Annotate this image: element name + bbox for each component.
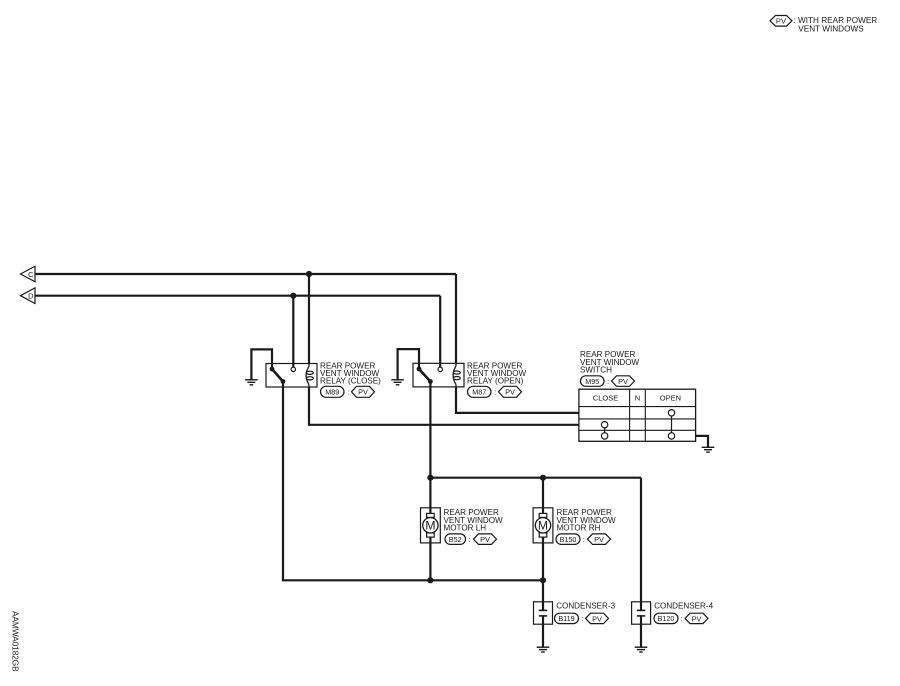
svg-text:PV: PV [480, 535, 490, 544]
svg-text::: : [607, 377, 609, 386]
motor B150 symbol [535, 513, 550, 537]
svg-text:N: N [635, 394, 640, 403]
wire condenser-3 to ground [542, 624, 544, 647]
motor B52 symbol [423, 513, 438, 537]
node bottom bus motor RH / condenser-3 [540, 577, 546, 583]
wire motor B52 bottom lead [429, 537, 431, 580]
svg-text:MOTOR LH: MOTOR LH [444, 523, 487, 532]
svg-text::: : [583, 535, 585, 544]
svg-text:PV: PV [594, 535, 604, 544]
connector arrow D [21, 288, 36, 304]
relay M87 box [413, 363, 464, 387]
svg-text:B150: B150 [560, 535, 577, 544]
wire D down to relay M87 terminal [439, 296, 441, 368]
relay M89 switch contact [270, 367, 286, 384]
ground (switch M95) [702, 447, 715, 452]
svg-text:SWITCH: SWITCH [580, 366, 612, 375]
connector badge M95 [581, 376, 610, 387]
node junction D / relay M89 contact feed [290, 293, 296, 299]
label motor B52 [444, 508, 504, 532]
svg-text:PV: PV [776, 17, 787, 26]
relay M89 coil [306, 364, 313, 388]
svg-text:M95: M95 [585, 377, 599, 386]
svg-text:PV: PV [692, 614, 702, 623]
svg-text:M87: M87 [472, 387, 486, 396]
svg-text:CLOSE: CLOSE [593, 394, 618, 403]
svg-text:M89: M89 [325, 387, 339, 396]
wire relay M89 coil to switch CLOSE row [309, 387, 579, 425]
connector badge B150 [556, 534, 585, 545]
wire distribution bus to motors and condenser-4 [430, 477, 641, 479]
relay M87 coil [453, 363, 460, 387]
ground (relay M87) [391, 380, 404, 385]
svg-text:PV: PV [358, 388, 368, 397]
svg-text:PV: PV [618, 377, 628, 386]
svg-text:D: D [28, 292, 33, 301]
wire C down to relay M87 coil [455, 274, 457, 363]
wire down to condenser-3 [542, 580, 544, 602]
svg-text:CONDENSER-3: CONDENSER-3 [556, 601, 615, 610]
switch M95 contact connectors [605, 416, 672, 433]
svg-text:B52: B52 [449, 535, 462, 544]
relay M87 ground wire [398, 349, 419, 380]
relay M87 pin terminal [438, 367, 442, 371]
switch M95 table column lines [630, 389, 646, 441]
relay M89 pin terminal [291, 367, 295, 371]
badge PV (switch M95) [612, 376, 635, 387]
wire bus down to condenser-4 [640, 478, 642, 602]
label PV legend [776, 16, 877, 33]
svg-text:M: M [538, 519, 548, 533]
wire relay M89 contact output (down-left bus) [282, 382, 284, 581]
svg-text:AAMWA0182GB: AAMWA0182GB [11, 611, 21, 672]
label relay M87 [467, 361, 527, 385]
wire relay M87 coil to switch OPEN row [456, 387, 579, 413]
connector badge M87 [468, 386, 497, 397]
connector badge B120 [654, 613, 683, 623]
badge PV (relay M87) [499, 386, 522, 397]
svg-text:B120: B120 [658, 614, 675, 623]
badge PV legend (top right) [770, 16, 792, 27]
condenser-4 capacitor symbol [637, 602, 645, 624]
motor B150 box [533, 508, 553, 543]
badge PV (relay M89) [352, 386, 375, 397]
svg-text:PV: PV [505, 388, 515, 397]
motor B52 box [421, 508, 441, 543]
svg-text:CONDENSER-4: CONDENSER-4 [654, 601, 713, 610]
wire condenser-4 to ground [640, 624, 642, 647]
svg-text:RELAY (CLOSE): RELAY (CLOSE) [320, 377, 381, 386]
wire switch M95 to ground [696, 436, 708, 447]
label switch M95 [580, 350, 640, 375]
connector arrow C [21, 266, 36, 282]
wire relay M87 contact output to motor LH [429, 382, 431, 514]
wire C horizontal [35, 273, 456, 275]
condenser-4 box [632, 602, 651, 624]
svg-text::: : [347, 387, 349, 396]
wire bus down to motor RH [542, 478, 544, 514]
node motor RH top junction [540, 475, 546, 481]
node bottom bus motor LH [427, 577, 433, 583]
ground (relay M89) [245, 380, 258, 385]
svg-text:MOTOR RH: MOTOR RH [557, 523, 601, 532]
wire bottom bus [282, 579, 543, 581]
svg-text::: : [468, 535, 470, 544]
badge PV (motor B150) [588, 534, 611, 545]
svg-text:PV: PV [592, 614, 602, 623]
connector badge B119 [555, 613, 584, 623]
node motor LH top junction [427, 475, 433, 481]
label motor B150 [557, 508, 617, 532]
switch M95 table box [579, 389, 696, 441]
ground (condenser-4) [635, 647, 648, 652]
svg-text::: : [681, 614, 683, 623]
svg-text:B119: B119 [558, 614, 574, 623]
svg-text::: : [494, 387, 496, 396]
svg-text:VENT WINDOWS: VENT WINDOWS [798, 25, 864, 34]
relay M87 switch contact [417, 367, 433, 384]
svg-text:RELAY (OPEN): RELAY (OPEN) [467, 377, 524, 386]
badge PV (condenser-4) [685, 613, 708, 623]
connector badge M89 [321, 386, 350, 397]
node junction C / relay M89 coil feed [306, 271, 312, 277]
svg-text:C: C [28, 270, 34, 279]
svg-text:M: M [425, 519, 435, 533]
svg-text:OPEN: OPEN [660, 394, 681, 403]
label relay M89 [320, 361, 381, 385]
switch M95 table row lines [579, 407, 696, 431]
switch M95 contact circles [601, 410, 674, 440]
badge PV (motor B52) [474, 534, 497, 545]
condenser-3 box [534, 602, 553, 624]
badge PV (condenser-3) [586, 613, 609, 623]
connector badge B52 [445, 534, 470, 545]
switch M95 table header labels [593, 394, 681, 403]
condenser-3 capacitor symbol [539, 602, 547, 624]
wire C down to relay M89 coil [308, 274, 310, 364]
wire D horizontal [35, 295, 440, 297]
ground (condenser-3) [537, 647, 550, 652]
relay M89 ground wire [251, 349, 272, 379]
relay M89 box [266, 364, 317, 388]
svg-text::: : [581, 614, 583, 623]
wire D down to relay M89 terminal [292, 296, 294, 368]
wire motor B150 bottom lead [542, 537, 544, 580]
